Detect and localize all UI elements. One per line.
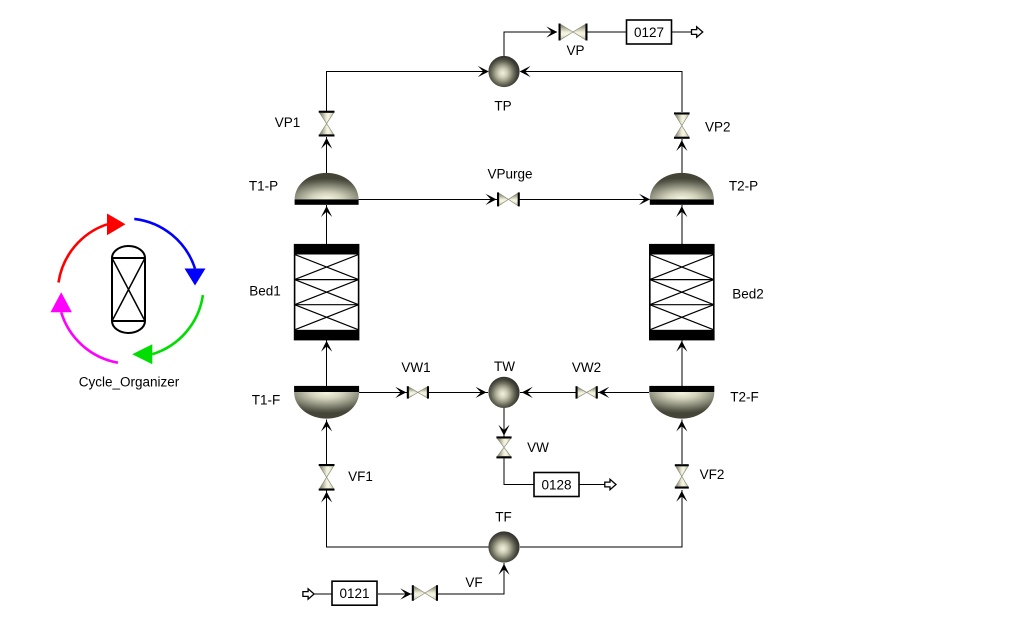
arrow into TF [498,564,509,575]
arrow into VF [400,588,411,599]
cycle organizer green arrowhead [132,344,152,364]
cycle organizer red arc [59,224,108,282]
arrow into T2-P from VPurge [639,194,650,205]
valve VPurge [497,192,520,206]
wire T1-F bottom up from VF1 [326,420,328,465]
svg-text:VW1: VW1 [401,360,430,375]
tank T1-F [294,386,359,419]
wire VP1 up and right into TP [327,72,488,112]
wire VP2 up and left into TP [521,72,682,113]
svg-text:VW: VW [527,440,549,455]
wire T2-F top to Bed2 bottom [681,340,683,386]
svg-text:VP: VP [566,43,584,58]
svg-text:VP2: VP2 [705,120,731,135]
valve VW2 [576,386,598,398]
svg-text:T2-F: T2-F [730,390,759,405]
svg-text:Cycle_Organizer: Cycle_Organizer [79,375,180,390]
wire VW down to 0128 [504,459,534,485]
arrow into VPurge [486,194,497,205]
cycle organizer blue arrowhead [185,269,206,286]
valve VF [412,585,438,601]
arrow into VP [546,26,557,37]
cycle organizer blue arc [134,219,195,269]
cycle organizer magenta arc [61,312,118,362]
valve VP [559,24,588,41]
arrow into VW2 [598,387,609,398]
tank T1-P [295,173,359,205]
wire VPurge line T1-P to T2-P [359,198,497,200]
svg-text:TP: TP [494,99,511,114]
wire TF sphere right to VF2 [520,490,682,547]
svg-text:VF2: VF2 [700,467,725,482]
valve VF2 [675,464,689,488]
tank T2-F [649,386,714,419]
wire T1-F to VW1 to TW [359,391,407,393]
tank sphere TW [488,377,519,408]
svg-text:0127: 0127 [634,25,664,40]
outlet arrow after 0128 [605,479,616,489]
arrow into VP1 [321,138,332,149]
arrow into VP2 [676,140,687,151]
adsorbent bed Bed2 [650,245,714,340]
valve VP2 [674,112,690,138]
svg-text:VW2: VW2 [572,360,601,375]
cycle organizer magenta arrowhead [51,292,72,312]
svg-text:VP1: VP1 [275,115,301,130]
wire TW down to VW [503,408,505,437]
stream box 0127 (S0127) [627,20,672,44]
tank sphere TF [488,531,519,562]
arrow into TW right [522,387,533,398]
svg-text:0128: 0128 [541,478,571,493]
valve VW1 [407,386,429,398]
wire T1-P up into VP1 [326,137,328,175]
wire inlet to 0121 [314,593,332,595]
arrow into TP left [478,66,489,77]
svg-text:TF: TF [495,510,512,525]
cycle organizer vessel icon [112,246,145,333]
arrow into VF1 [321,492,332,503]
tank T2-P [650,173,714,205]
wire 0121 to VF to TF [378,593,412,595]
svg-text:Bed1: Bed1 [249,284,281,299]
wire TP top to VP to 0127 to outlet [504,32,557,58]
arrow into T1-F [321,421,332,432]
arrow into T2-F [676,421,687,432]
valve VF1 [319,464,335,491]
svg-text:VPurge: VPurge [487,167,532,182]
arrow into VW1 [395,387,406,398]
stream box 0128 (S0128) [534,473,579,497]
tank sphere TP [488,56,519,87]
svg-text:T2-P: T2-P [729,179,758,194]
arrow into Bed2 [676,341,687,352]
wire T2-F to VW2 to TW [598,391,649,393]
valve VW [496,436,511,458]
svg-text:T1-F: T1-F [252,393,281,408]
wire Bed2 top to T2-P [681,205,683,245]
arrow into T1-P [321,206,332,217]
svg-text:VF: VF [465,575,482,590]
outlet arrow after 0127 [692,27,703,37]
arrow into T2-P from bed [676,206,687,217]
inlet arrow before 0121 [303,589,314,599]
arrow into TW left [476,387,487,398]
valve VP1 [319,111,335,137]
svg-text:0121: 0121 [339,586,369,601]
stream box 0121 (S0121) [332,581,377,605]
svg-text:T1-P: T1-P [249,179,278,194]
adsorbent bed Bed1 [295,245,359,340]
svg-text:TW: TW [494,359,515,374]
arrow into Bed1 [321,341,332,352]
svg-text:Bed2: Bed2 [732,287,764,302]
wire Bed1 top to T1-P [326,205,328,245]
wire T1-F top to Bed1 bottom [326,340,328,386]
wire T2-P up into VP2 [681,139,683,175]
wire feed header from VF1 down to TF sphere [327,491,489,547]
arrow into TP right [520,66,531,77]
cycle organizer green arc [152,295,203,354]
arrow into VW [498,425,509,436]
cycle organizer red arrowhead [107,214,126,236]
arrow into VF2 [676,491,687,502]
wire T2-F bottom up from VF2 [681,420,683,465]
svg-text:VF1: VF1 [348,469,373,484]
